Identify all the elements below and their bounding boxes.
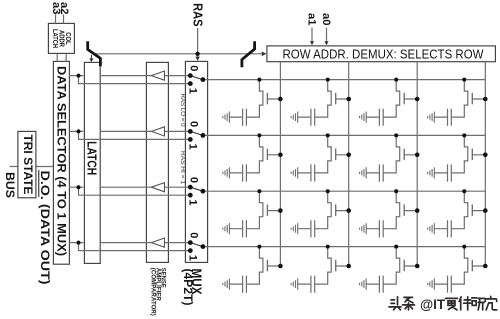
- svg-text:(4P2T): (4P2T): [181, 269, 193, 306]
- svg-text:D.O. (DATA OUT): D.O. (DATA OUT): [38, 171, 52, 285]
- svg-text:a3: a3: [50, 2, 62, 15]
- svg-text:RAS: RAS: [190, 3, 205, 27]
- svg-text:LATCH: LATCH: [85, 141, 99, 175]
- svg-text:BUS: BUS: [3, 172, 15, 198]
- svg-text:ROW ADDR. DEMUX: SELECTS ROW: ROW ADDR. DEMUX: SELECTS ROW: [283, 47, 484, 61]
- svg-text:a0: a0: [320, 13, 332, 26]
- svg-text:DATA SELECTOR (4 TO 1 MUX): DATA SELECTOR (4 TO 1 MUX): [54, 66, 68, 256]
- svg-text:LATCH: LATCH: [51, 29, 58, 48]
- svg-text:RAS LO = 0: RAS LO = 0: [179, 94, 185, 128]
- svg-text:a1: a1: [306, 13, 318, 26]
- svg-text:@IT: @IT: [420, 297, 446, 312]
- svg-text:(COMPARATOR): (COMPARATOR): [150, 268, 157, 316]
- svg-text:TRI STATE: TRI STATE: [21, 135, 33, 195]
- svg-text:RAS HI = 1: RAS HI = 1: [179, 151, 185, 185]
